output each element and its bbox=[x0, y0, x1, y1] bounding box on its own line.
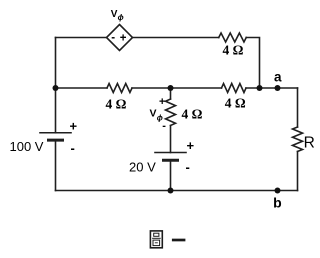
wire middle center segment bbox=[132, 87, 222, 89]
wire bottom horizontal bbox=[56, 190, 298, 192]
label Vphi across center resistor bbox=[150, 108, 163, 123]
wire top-left horizontal bbox=[56, 37, 107, 39]
dependent source diamond U1 bbox=[107, 25, 133, 51]
junction node center-middle bbox=[168, 85, 174, 91]
wire right vertical upper bbox=[297, 88, 299, 127]
junction node center-bottom bbox=[168, 188, 174, 194]
junction node left-middle bbox=[53, 85, 59, 91]
wire top from diamond to resistor bbox=[133, 37, 219, 39]
battery 100V long plate bbox=[40, 132, 71, 134]
svg-text:4 Ω: 4 Ω bbox=[182, 107, 203, 122]
resistor R zigzag vertical bbox=[293, 127, 303, 152]
svg-text:V: V bbox=[150, 108, 157, 120]
svg-text:-: - bbox=[186, 160, 190, 175]
svg-text:4 Ω: 4 Ω bbox=[223, 43, 244, 58]
node a dot bbox=[275, 85, 281, 91]
svg-text:-: - bbox=[162, 120, 166, 132]
wire left vertical lower bbox=[55, 140, 57, 190]
caption character tu (figure) bbox=[150, 231, 162, 248]
wire left vertical upper bbox=[55, 38, 57, 133]
junction node top-branch bbox=[257, 85, 263, 91]
wire right vertical lower bbox=[297, 152, 299, 191]
wire middle right segment to corner bbox=[246, 87, 298, 89]
wire middle left segment bbox=[56, 87, 108, 89]
svg-text:-: - bbox=[71, 141, 75, 156]
resistor 4ohm middle-right zigzag R3 bbox=[222, 84, 247, 93]
node b dot bbox=[275, 188, 281, 194]
label Vphi of dependent source bbox=[111, 9, 124, 22]
svg-text:+: + bbox=[70, 119, 78, 134]
svg-text:-: - bbox=[111, 32, 115, 44]
wire center branch lower bbox=[170, 160, 172, 190]
resistor 4ohm top zigzag bbox=[219, 33, 247, 42]
svg-text:+: + bbox=[120, 33, 127, 45]
svg-text:ϕ: ϕ bbox=[118, 13, 124, 22]
resistor 4ohm middle-left zigzag R2 bbox=[107, 84, 132, 93]
wire center branch upper bbox=[170, 88, 172, 99]
svg-text:20 V: 20 V bbox=[129, 160, 156, 175]
battery 20V short plate bbox=[164, 159, 178, 162]
svg-text:100 V: 100 V bbox=[10, 139, 44, 154]
caption character yi (one) bbox=[172, 239, 186, 242]
svg-text:R: R bbox=[304, 135, 315, 152]
wire top-right corner down bbox=[246, 38, 259, 89]
svg-text:+: + bbox=[159, 96, 165, 108]
svg-text:a: a bbox=[274, 69, 282, 84]
wire center branch middle bbox=[170, 126, 172, 153]
battery 100V short plate bbox=[49, 139, 63, 142]
svg-text:b: b bbox=[273, 195, 282, 211]
svg-text:+: + bbox=[187, 138, 195, 153]
battery 20V long plate bbox=[155, 152, 186, 154]
svg-text:4 Ω: 4 Ω bbox=[106, 97, 127, 112]
svg-text:4 Ω: 4 Ω bbox=[225, 96, 246, 111]
resistor 4ohm center vertical zigzag R4 bbox=[166, 99, 176, 126]
